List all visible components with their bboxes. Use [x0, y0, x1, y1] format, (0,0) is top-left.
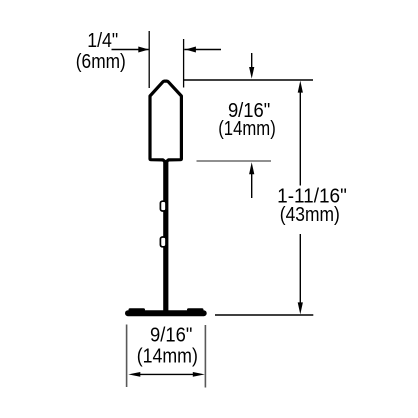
extension line bulb right: [183, 39, 185, 88]
down arrow 9/16 upper: [251, 53, 253, 69]
flange right hem lip: [189, 308, 203, 311]
svg-text:1/4": 1/4": [87, 30, 118, 52]
stem tab lower: [160, 237, 166, 247]
bottom extension line left: [126, 325, 128, 388]
svg-text:(14mm): (14mm): [218, 118, 276, 140]
up arrow 9/16 lower: [251, 173, 253, 198]
top reference line: [184, 79, 313, 81]
bottom reference line: [215, 314, 313, 316]
extension line bulb left: [148, 31, 150, 88]
dim line 1/4 left: [112, 49, 149, 51]
gray mid reference line: [197, 160, 272, 162]
profile stem: [163, 158, 168, 313]
dim line 1-11/16 lower segment with down arrow: [299, 234, 301, 305]
dim line 1-11/16 upper segment with up arrow: [299, 90, 301, 186]
bottom extension line right: [204, 325, 206, 388]
flange left hem lip: [130, 308, 144, 311]
svg-text:(43mm): (43mm): [280, 204, 340, 226]
stem tab upper: [160, 201, 166, 211]
dim line 1/4 right: [184, 49, 221, 51]
profile bottom flange: [128, 310, 204, 316]
bottom dim double arrow: [136, 373, 197, 375]
svg-text:9/16": 9/16": [150, 324, 192, 346]
profile top bulb: [150, 81, 181, 162]
svg-text:(6mm): (6mm): [76, 51, 126, 73]
svg-text:(14mm): (14mm): [137, 346, 198, 368]
